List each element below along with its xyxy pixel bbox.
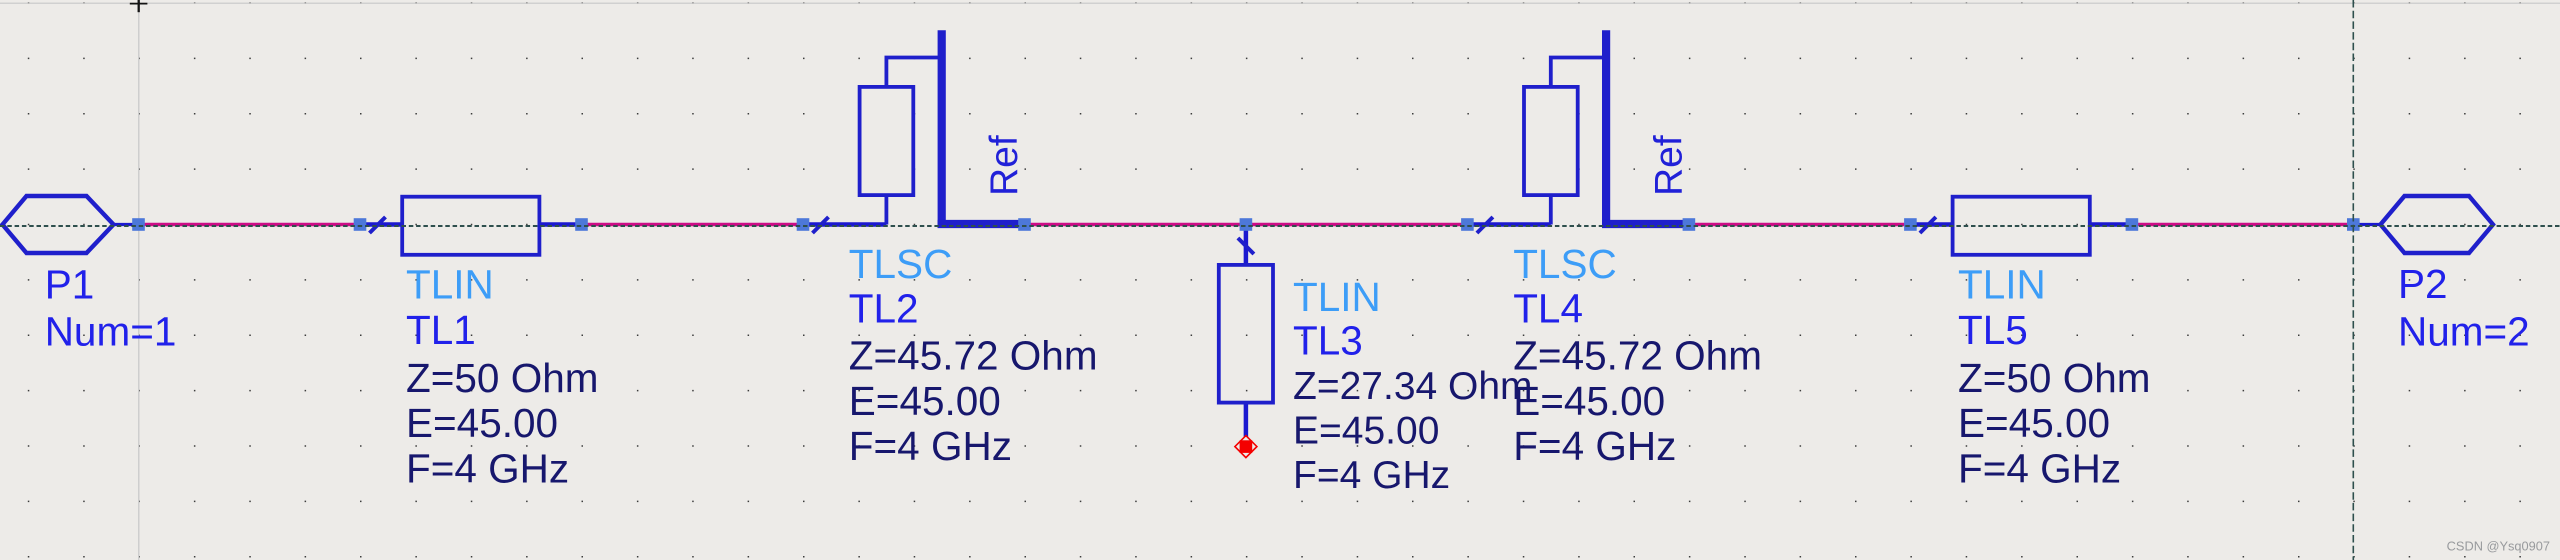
svg-text:TLSC: TLSC <box>849 241 953 287</box>
svg-text:Num=2: Num=2 <box>2398 309 2530 355</box>
svg-text:F=4 GHz: F=4 GHz <box>1513 423 1676 469</box>
svg-text:TL4: TL4 <box>1513 285 1583 331</box>
svg-text:F=4 GHz: F=4 GHz <box>1293 454 1450 497</box>
svg-text:CSDN @Ysq0907: CSDN @Ysq0907 <box>2447 539 2550 554</box>
svg-text:Ref: Ref <box>1647 135 1690 196</box>
svg-text:E=45.00: E=45.00 <box>1958 400 2110 446</box>
svg-text:TL2: TL2 <box>849 285 919 331</box>
svg-text:Z=45.72 Ohm: Z=45.72 Ohm <box>849 333 1098 379</box>
svg-text:E=45.00: E=45.00 <box>1513 378 1665 424</box>
svg-text:P2: P2 <box>2398 261 2448 307</box>
svg-text:Z=45.72 Ohm: Z=45.72 Ohm <box>1513 333 1762 379</box>
svg-text:Ref: Ref <box>983 135 1026 196</box>
svg-text:Z=50 Ohm: Z=50 Ohm <box>1958 355 2150 401</box>
svg-text:TLSC: TLSC <box>1513 241 1617 287</box>
svg-text:TL5: TL5 <box>1958 307 2028 353</box>
svg-text:Z=27.34 Ohm: Z=27.34 Ohm <box>1293 365 1533 408</box>
svg-text:F=4 GHz: F=4 GHz <box>406 446 569 492</box>
svg-text:TLIN: TLIN <box>1293 274 1381 320</box>
svg-text:E=45.00: E=45.00 <box>849 378 1001 424</box>
svg-text:F=4 GHz: F=4 GHz <box>849 423 1012 469</box>
svg-text:E=45.00: E=45.00 <box>406 400 558 446</box>
svg-text:E=45.00: E=45.00 <box>1293 410 1439 453</box>
svg-text:F=4 GHz: F=4 GHz <box>1958 446 2121 492</box>
svg-text:TLIN: TLIN <box>1958 262 2046 308</box>
svg-text:TL3: TL3 <box>1293 318 1363 364</box>
svg-text:TL1: TL1 <box>406 307 476 353</box>
svg-text:Z=50 Ohm: Z=50 Ohm <box>406 355 598 401</box>
svg-text:Num=1: Num=1 <box>45 309 177 355</box>
svg-text:TLIN: TLIN <box>406 262 494 308</box>
svg-text:P1: P1 <box>45 262 95 308</box>
